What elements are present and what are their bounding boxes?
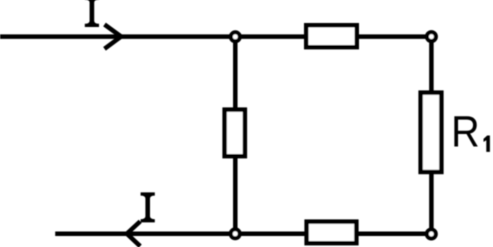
wire bottom horizontal <box>55 232 431 237</box>
svg-text:R: R <box>451 107 480 156</box>
resistor top (between node A and node B) <box>306 25 357 47</box>
resistor middle vertical (between node A and node C) <box>225 110 245 157</box>
node C (bottom middle junction) <box>231 229 240 238</box>
wire middle vertical <box>233 37 238 234</box>
resistor bottom (between node C and node D) <box>307 222 357 244</box>
wire top horizontal <box>0 34 431 39</box>
label R1 value: subscript 1 <box>484 136 490 152</box>
label I bottom current <box>141 192 155 222</box>
node A (top middle junction) <box>231 32 240 41</box>
node B (top right junction) <box>427 32 436 41</box>
wire right vertical <box>429 37 434 234</box>
current arrow I top (pointing right) <box>105 25 122 49</box>
current arrow I bottom (pointing left) <box>127 221 140 246</box>
resistor R1 right vertical (between node B and node D) <box>421 93 442 172</box>
label I top current <box>85 0 99 27</box>
label R1 value: R <box>451 107 480 156</box>
node D (bottom right junction) <box>427 230 436 239</box>
